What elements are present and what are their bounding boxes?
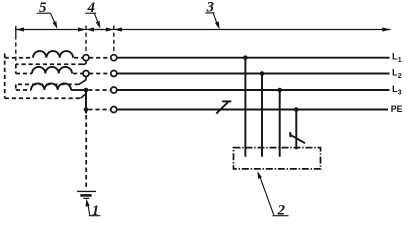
terminal circle row2 col1	[83, 71, 89, 77]
bend from terminal 2 down to return 3	[79, 76, 86, 84]
line L2	[117, 73, 390, 75]
vertical bus L3 to PE (solid)	[85, 90, 87, 114]
return wire 2 (dashed)	[16, 63, 83, 65]
svg-text:PE: PE	[391, 104, 403, 114]
bottom dashed line (star return)	[5, 97, 81, 99]
drop wire from L1	[244, 58, 246, 157]
dimension arrowheads	[16, 27, 391, 31]
drop wire from PE	[295, 110, 297, 150]
drop wire from L3	[279, 90, 281, 157]
bend from terminal 1 down to return 2	[83, 61, 87, 65]
label 5	[37, 0, 58, 29]
junction L1 drop	[243, 55, 248, 60]
wire L2 dashed (left of winding)	[16, 73, 32, 75]
bracket 3 (vertical dashed)	[15, 84, 17, 90]
box 2 (consumer installation, dash-dot)	[234, 148, 321, 169]
svg-text:2: 2	[277, 203, 286, 219]
earth electrode symbol	[77, 191, 96, 198]
svg-text:1: 1	[92, 203, 100, 219]
switch on PE drop	[290, 132, 305, 143]
return wire 3 (dashed)	[16, 83, 79, 85]
label 1	[86, 199, 101, 219]
bottom line bend to vertical	[81, 94, 87, 99]
junction L3 drop	[277, 88, 282, 93]
dimension tick left end	[15, 26, 17, 36]
line L1	[117, 57, 390, 59]
wire L3 dashed (left of winding)	[16, 89, 31, 91]
label 3	[205, 0, 219, 29]
junction L3 star point	[84, 88, 89, 93]
drop wire from L2	[261, 74, 263, 157]
terminal circle row1 col2	[111, 55, 117, 61]
bracket 2 (vertical dashed)	[15, 64, 17, 73]
svg-text:L1: L1	[392, 52, 402, 64]
svg-text:L2: L2	[392, 68, 402, 80]
winding W2	[32, 67, 72, 74]
row dashes between terminal columns: PE	[88, 109, 111, 111]
terminal circle row2 col2	[111, 71, 117, 77]
line PE	[117, 109, 388, 111]
extension line (dashed) at boundary 4-left	[85, 26, 87, 55]
label 4	[85, 0, 100, 29]
row dashes between terminal columns: L1	[89, 57, 111, 59]
terminal circle row1 col1	[83, 55, 89, 61]
line L3	[117, 89, 390, 91]
extension line (dashed) at boundary 4-right	[113, 26, 115, 53]
winding W1	[33, 51, 73, 58]
row dashes between terminal columns: L3	[88, 89, 111, 91]
wire L1 dash to terminal	[74, 57, 83, 59]
label 2	[257, 171, 288, 218]
terminal circle row3 col2	[111, 87, 117, 93]
svg-text:L3: L3	[392, 84, 402, 96]
terminal circle PE col2	[111, 107, 117, 113]
winding W3	[31, 83, 71, 90]
wire L1 dashed (left of winding)	[5, 57, 33, 59]
row dashes between terminal columns: L2	[89, 73, 111, 75]
earthing conductor (dashed)	[85, 115, 87, 188]
wire L2 dash to terminal	[73, 73, 83, 75]
wire L3 solid to junction	[71, 89, 86, 91]
dimension line (top, spans 5 / 4 / 3)	[16, 29, 391, 31]
junction L2 drop	[260, 71, 265, 76]
switch on PE line	[216, 101, 231, 113]
left dashed bus (vertical)	[4, 54, 6, 99]
extension line (dashed) below left tick	[15, 35, 17, 63]
junction PE	[84, 107, 89, 112]
junction PE drop	[294, 107, 299, 112]
